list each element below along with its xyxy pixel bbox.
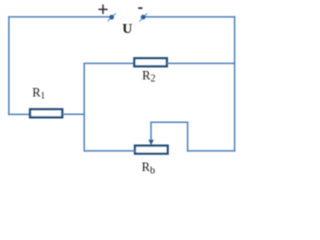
wire: outer left vertical [8, 16, 10, 115]
svg-text:R1: R1 [32, 85, 45, 101]
wire: wiper riser vertical [187, 122, 189, 151]
terminal + dot [109, 15, 114, 20]
resistor R2 [134, 58, 167, 66]
resistor R1 [30, 109, 62, 117]
label + [98, 5, 107, 15]
wire: R2 right lead [167, 62, 235, 64]
wire: wiper horizontal [151, 121, 188, 123]
terminal + slash [108, 13, 116, 21]
resistor Rb [135, 146, 168, 154]
wire: outer top-right horizontal [143, 16, 235, 18]
svg-text:Rb: Rb [142, 160, 155, 177]
wire: bottom right horizontal [187, 150, 235, 152]
svg-text:U: U [122, 22, 132, 37]
wire: R1 left lead [8, 113, 30, 115]
svg-text:R2: R2 [142, 68, 155, 84]
wire: inner top horizontal (R2 left lead) [84, 62, 136, 64]
wire: outer top-left horizontal [8, 16, 112, 18]
wire: inner left vertical [83, 63, 85, 152]
wiper arrowhead [148, 140, 153, 145]
label - [138, 7, 142, 9]
wiper arrow shaft [150, 121, 152, 141]
wire: outer right vertical [234, 16, 236, 152]
terminal - dot [141, 15, 146, 20]
wire: Rb left lead [84, 150, 137, 152]
terminal - slash [139, 13, 147, 21]
wire: R1 right lead [63, 113, 86, 115]
